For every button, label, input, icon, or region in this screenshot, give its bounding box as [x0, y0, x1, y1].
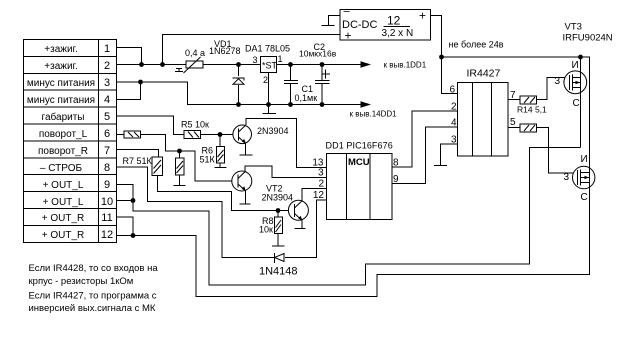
svg-text:DA1 78L05: DA1 78L05 — [245, 44, 290, 54]
wire +OUT_R rows11-12 — [117, 189, 590, 297]
regulator DA1 — [253, 54, 283, 85]
wire +5V to arrow — [330, 61, 372, 68]
node junction row1-row2 — [139, 62, 144, 67]
svg-text:12: 12 — [313, 190, 325, 201]
wire +12V main rail row2 — [117, 64, 362, 66]
svg-text:габариты: габариты — [42, 111, 85, 123]
svg-text:Если IR4428, то со входов на: Если IR4428, то со входов на — [29, 263, 159, 274]
svg-text:+ OUT_L: + OUT_L — [43, 197, 84, 208]
node row6 pulldown — [177, 149, 182, 154]
wire VT2 emitter ground — [295, 220, 306, 229]
svg-text:крпус - резисторы 1кОм: крпус - резисторы 1кОм — [29, 276, 134, 287]
svg-text:+зажиг.: +зажиг. — [44, 61, 77, 72]
svg-text:8: 8 — [104, 162, 110, 174]
node C2 top — [320, 62, 325, 67]
wire DC-DC output — [431, 16, 458, 94]
resistor R14 — [520, 96, 537, 104]
mosfet VT3a IRFU9024N — [564, 71, 587, 94]
svg-text:Если IR4427, то программа с: Если IR4427, то программа с — [29, 291, 157, 302]
wire VT2 collector to MCU pin2 — [302, 189, 327, 202]
resistor pulldown row6 — [174, 151, 186, 186]
svg-text:51К: 51К — [200, 155, 216, 165]
wire R5 to Q1 base — [201, 134, 234, 136]
svg-text:*ST: *ST — [262, 61, 278, 71]
node DC-DC rail — [439, 55, 444, 60]
node zener top — [236, 62, 241, 67]
resistor R8 — [272, 211, 285, 247]
svg-text:3: 3 — [564, 172, 570, 183]
node C1 top — [288, 62, 293, 67]
node C1 bottom — [288, 102, 293, 107]
svg-text:+зажиг.: +зажиг. — [44, 44, 77, 55]
svg-text:+: + — [419, 9, 426, 23]
svg-text:12: 12 — [387, 14, 401, 28]
wire +24V rail — [442, 57, 590, 167]
svg-text:R5 10к: R5 10к — [181, 120, 209, 130]
svg-text:5: 5 — [104, 111, 110, 123]
wire IR pin7 to R14 — [508, 99, 520, 101]
svg-text:+: + — [345, 29, 352, 43]
wire row8 STROB to diode — [117, 167, 275, 258]
svg-text:0,1мк: 0,1мк — [295, 93, 318, 103]
svg-text:4: 4 — [104, 94, 110, 106]
ground symbol under regulator — [263, 105, 277, 114]
svg-text:MCU: MCU — [348, 157, 370, 168]
wire IR pin5 to R15 — [508, 127, 520, 129]
node zener bottom — [236, 102, 241, 107]
svg-text:2N3904: 2N3904 — [262, 193, 294, 203]
node junction DC-DC branch — [160, 62, 165, 67]
svg-text:6: 6 — [104, 128, 110, 140]
wire row6 povorot_L — [117, 134, 125, 136]
svg-text:2: 2 — [263, 75, 268, 85]
arrow ground rail — [361, 101, 372, 108]
wire IR pin3 ground — [434, 144, 458, 166]
svg-text:DD1 PIC16F676: DD1 PIC16F676 — [326, 141, 393, 151]
svg-text:R14 5,1: R14 5,1 — [517, 105, 547, 115]
svg-text:IRFU9024N: IRFU9024N — [563, 33, 613, 44]
connector X1 table — [24, 40, 117, 243]
resistor row6 input — [124, 131, 141, 138]
transistor VT2 2N3904 — [288, 200, 308, 220]
svg-text:3: 3 — [253, 55, 258, 65]
wire R14 to VT3a gate — [537, 78, 570, 100]
svg-text:минус питания: минус питания — [27, 95, 95, 106]
svg-text:+ OUT_R: + OUT_R — [42, 230, 85, 241]
resistor R5 — [184, 131, 201, 139]
node C2 bottom — [320, 102, 325, 107]
svg-text:IR4427: IR4427 — [467, 68, 501, 80]
svg-text:10к: 10к — [259, 225, 273, 235]
svg-text:3,2 x N: 3,2 x N — [382, 28, 414, 39]
wire ground rail — [141, 82, 362, 105]
capacitor C1 — [284, 65, 298, 105]
svg-text:к выв.1DD1: к выв.1DD1 — [384, 61, 427, 70]
svg-text:С: С — [581, 192, 588, 203]
resistor R6 — [215, 135, 227, 168]
resistor R7 — [152, 157, 163, 176]
svg-text:12: 12 — [101, 229, 113, 241]
svg-text:2: 2 — [318, 179, 324, 190]
node rows9-10 — [131, 198, 136, 203]
wire VT3a drain down — [580, 94, 582, 148]
zener diode VD1 — [233, 65, 244, 105]
resistor R15 — [520, 124, 537, 132]
node R5 R6 base — [218, 132, 223, 137]
svg-text:1N6278: 1N6278 — [209, 46, 241, 56]
node rows11-12 — [131, 233, 136, 238]
wire riser to DC-DC plus input — [163, 35, 341, 65]
svg-text:11: 11 — [101, 212, 112, 224]
svg-text:3: 3 — [555, 76, 561, 87]
svg-text:5: 5 — [510, 117, 516, 128]
svg-text:И: И — [581, 154, 588, 165]
svg-text:10мкх16в: 10мкх16в — [299, 49, 337, 59]
wire diode to MCU pin12 — [285, 200, 327, 258]
wire Q2 emitter ground — [240, 191, 251, 205]
svg-text:3: 3 — [104, 77, 110, 89]
wire row6 to Q2 base — [141, 135, 233, 182]
wire row5 gabarity to R5 — [117, 116, 185, 135]
transistor Q2 2N3904 — [232, 171, 252, 191]
capacitor C2 polar — [315, 65, 330, 105]
connector row labels — [27, 44, 95, 241]
svg-text:6: 6 — [450, 85, 456, 96]
svg-text:2: 2 — [451, 102, 457, 113]
node R8 top — [276, 208, 281, 213]
svg-text:поворот_L: поворот_L — [39, 129, 88, 140]
ground symbol DC-DC minus — [322, 16, 341, 26]
svg-text:9: 9 — [104, 179, 110, 191]
svg-text:поворот_R: поворот_R — [38, 146, 88, 157]
wire Q1 emitter to ground — [240, 143, 253, 155]
wire R7 to VT2 base — [158, 176, 289, 211]
svg-text:R7 51К: R7 51К — [123, 156, 153, 166]
wire R15 to VT3b gate — [537, 128, 578, 174]
wire VT3a source to rail — [580, 57, 582, 72]
wire minus rows 3-4 junction — [117, 82, 141, 100]
svg-text:2N3904: 2N3904 — [257, 126, 289, 136]
svg-text:1: 1 — [104, 43, 110, 55]
wire MCU pin9 to IR4427 pin4 — [392, 127, 458, 184]
connector pin numbers — [101, 43, 113, 241]
svg-text:3: 3 — [318, 168, 324, 179]
wire regulator pin2 down — [268, 73, 270, 105]
diode 1N4148 — [275, 253, 285, 263]
svg-text:И: И — [572, 60, 579, 71]
node VT3a source rail — [578, 55, 583, 60]
mosfet VT3b IRFU9024N — [573, 166, 595, 188]
wire MCU pin8 to IR4427 pin2 — [392, 111, 458, 167]
wire row7 povorot_R to R7 — [117, 150, 159, 158]
svg-text:10: 10 — [101, 196, 113, 208]
svg-text:–: – — [344, 6, 351, 18]
DC-DC converter block — [340, 6, 431, 43]
svg-text:инверсией вых.сигнала с МК: инверсией вых.сигнала с МК — [29, 303, 156, 314]
svg-text:4: 4 — [451, 118, 457, 129]
fuse F1 0,4a — [175, 57, 203, 73]
svg-text:2: 2 — [104, 60, 110, 72]
svg-text:1N4148: 1N4148 — [259, 266, 298, 278]
wire pin1 to pin2 junction — [117, 48, 142, 65]
node regulator ground — [266, 102, 271, 107]
svg-text:+ OUT_L: + OUT_L — [43, 180, 84, 191]
svg-text:к выв.14DD1: к выв.14DD1 — [350, 110, 398, 119]
node rows3-4 — [138, 80, 143, 85]
svg-text:7: 7 — [104, 145, 110, 157]
wire +OUT_L rows9-10 — [117, 148, 581, 286]
MCU DD1 box — [327, 154, 393, 220]
svg-text:1: 1 — [278, 54, 283, 64]
svg-text:+ OUT_R: + OUT_R — [42, 213, 85, 224]
svg-text:С: С — [573, 98, 580, 109]
wire Q2 collector to MCU pin3 — [245, 166, 326, 178]
svg-text:не более 24в: не более 24в — [449, 40, 504, 50]
transistor Q1 2N3904 — [233, 125, 252, 144]
svg-text:– СТРОБ: – СТРОБ — [40, 163, 83, 174]
svg-text:0,4 а: 0,4 а — [185, 48, 205, 58]
svg-text:VT3: VT3 — [565, 22, 582, 33]
IR4427 box — [458, 83, 509, 157]
wire Q1 collector to MCU pin13 — [246, 119, 327, 168]
svg-text:минус питания: минус питания — [27, 78, 95, 89]
